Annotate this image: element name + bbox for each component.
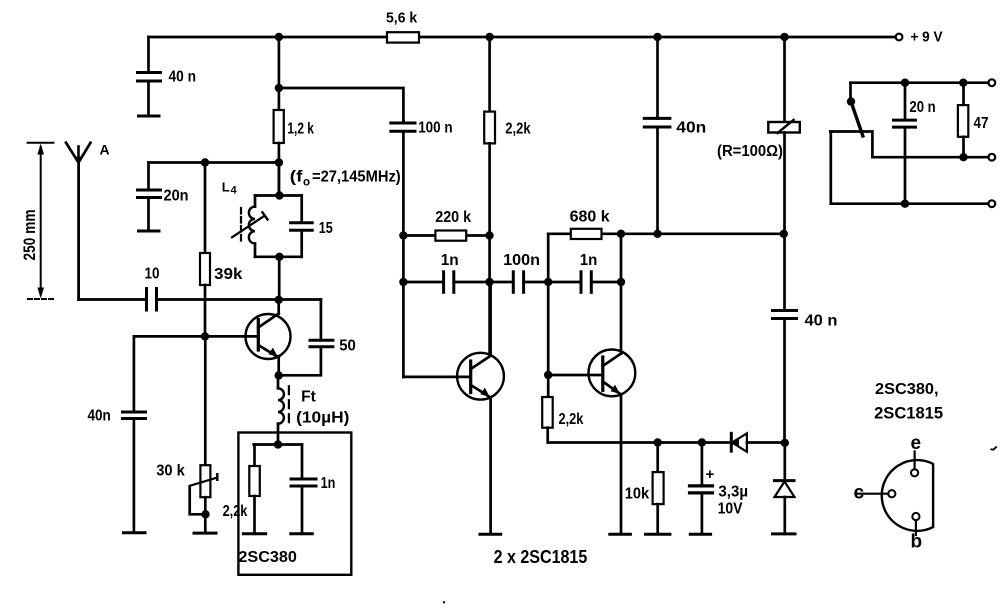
ground bar (Q3 emitter) [610,533,631,536]
node: 680k/40n [653,230,661,238]
transistor Q2 2SC1815 [457,282,504,534]
wire 680k line [548,232,783,235]
label f0 [290,169,401,189]
node: 1,2k bottom junction [275,158,283,166]
wire antenna line to C10 [79,298,146,301]
svg-text:2SC380,: 2SC380, [875,381,939,398]
svg-text:+: + [706,466,715,483]
svg-text:1n: 1n [580,252,598,269]
wire tank bottom to collector node [278,257,281,300]
svg-text:40 n: 40 n [805,313,838,330]
node: 1n left [399,278,407,286]
relay coil (R=100) [717,37,800,234]
speck [443,601,445,603]
svg-text:20 n: 20 n [909,99,935,116]
resistor 10k [625,443,664,535]
node: rail/1,2k junction [275,33,283,41]
resistor 2,2k (box) [223,445,260,534]
capacitor 100n (Q1 collector coupling) [391,120,453,377]
ground bar (3,3u) [690,533,710,536]
svg-text:+ 9 V: + 9 V [911,29,943,46]
wire C10 to collector node [157,298,321,301]
svg-text:20n: 20n [164,188,189,205]
svg-text:(10µH): (10µH) [296,410,349,427]
capacitor 1n (box) [291,445,335,534]
capacitor 20n left [138,163,189,232]
capacitor 40n (middle) [644,37,706,234]
resistor 1,2k [274,37,315,196]
ground bar (20n left) [139,230,160,233]
ground bar (Q2 emitter) [480,533,501,536]
resistor 39k [200,163,243,337]
svg-text:2,2k: 2,2k [505,121,531,138]
node: sw top 20n [901,79,909,87]
node: Q3 base node [544,371,552,379]
capacitor 40n bottom-left [88,336,146,532]
wire switch mid rail [872,156,988,159]
terminal switch bottom [988,200,995,207]
capacitor 40n (right) [773,234,838,443]
terminal +9V [896,29,943,46]
svg-text:2SC380: 2SC380 [238,549,297,566]
svg-text:40n: 40n [88,408,111,425]
wire Q3 base network vertical [547,234,550,397]
resistor 2,2k (Q3 base) [542,397,658,443]
svg-text:=27,145MHz): =27,145MHz) [312,169,401,186]
potentiometer 30k [156,336,217,533]
antenna A [66,142,110,164]
node: 30k wiper junction [201,510,209,518]
node: 10k top [654,438,662,446]
node: 220k left [399,231,407,239]
transistor pinout package [854,433,934,553]
capacitor 40n top-left [138,37,197,116]
wire switch top rail [851,81,989,84]
stray mark [991,447,996,450]
dimension 250mm [20,143,53,299]
node: 47 bottom [959,153,967,161]
wire switch bottom rail [831,202,989,205]
svg-text:39k: 39k [214,266,243,283]
wire inside box [254,443,302,446]
svg-text:10: 10 [145,266,160,283]
wire tank top lead [278,163,281,196]
node: diode/zener junction [781,439,789,447]
wire 20n branch line [149,161,279,164]
diode D1 (horizontal) [731,433,784,452]
svg-text:47: 47 [974,115,989,132]
node: 1n2 left [544,278,552,286]
ground bar (1n box) [291,532,313,535]
svg-text:4: 4 [231,185,238,197]
svg-text:(f: (f [290,169,304,186]
svg-text:15: 15 [319,220,333,237]
wire Q2 base line [403,376,470,379]
node: box junction [274,440,282,448]
svg-text:250 mm: 250 mm [20,210,39,261]
label 2SC380, 2SC1815 [874,381,943,423]
capacitor 1n (second) [548,252,621,293]
ground bar (10k) [646,533,670,536]
ground bar (2,2k box) [243,532,265,535]
capacitor 10 [145,266,160,311]
svg-text:40 n: 40 n [169,69,197,86]
wire +9V top rail [149,36,896,39]
wire 100n branch [279,88,404,121]
node: rail/relay junction [780,33,788,41]
resistor 680k [570,209,610,240]
svg-text:100n: 100n [503,252,540,269]
inductor Ft 10uH [278,376,349,445]
node: 680k/relay [780,230,788,238]
node: 3,3u top [698,438,706,446]
svg-text:L: L [222,180,230,195]
node: 1n2 right [617,278,625,286]
terminal switch mid [988,154,995,161]
node: sw top 47 [959,79,967,87]
svg-text:c: c [854,482,865,503]
ground bar (40n top-left) [139,115,160,118]
svg-text:1,2 k: 1,2 k [287,121,314,138]
transistor Q3 2SC1815 [589,234,636,534]
ground bar (40n bottom-left) [124,531,146,534]
node: emitter node Q1 [275,371,283,379]
diode D2 (vertical) [775,443,795,534]
svg-text:10V: 10V [718,501,743,518]
resistor 220k [403,209,489,241]
svg-text:e: e [911,433,922,454]
svg-text:40n: 40n [676,120,706,137]
node: 1n right [485,278,493,286]
svg-text:(R=100Ω): (R=100Ω) [717,143,783,160]
svg-text:3,3µ: 3,3µ [718,484,748,501]
svg-text:680 k: 680 k [570,209,610,226]
capacitor 100n (interstage) [490,252,549,293]
transistor Q1 2SC380 [246,300,291,376]
resistor 2,2k (Q2 collector) [484,37,531,355]
capacitor 1n (first) [403,252,489,293]
node: 680k/Q3 collector [617,230,625,238]
svg-text:2,2k: 2,2k [559,411,584,428]
node: 1,2k/100n branch [275,84,283,92]
node: 39k top junction [201,158,209,166]
resistor 5,6k [386,10,419,43]
node: tank bottom [275,253,283,261]
terminal switch top [988,79,995,86]
svg-text:o: o [303,177,310,189]
relay switch contact [830,83,872,158]
svg-text:10k: 10k [625,486,650,503]
node: base node Q1 [201,332,209,340]
resistor 47 [958,83,989,158]
box 2SC380 stage [238,433,351,575]
svg-text:1n: 1n [321,475,336,492]
svg-text:Ft: Ft [301,389,316,406]
svg-text:b: b [911,532,923,553]
svg-text:100 n: 100 n [418,120,452,137]
wire switch left down [829,132,832,204]
svg-text:A: A [100,142,110,158]
node: rail/2,2k junction [485,33,493,41]
svg-text:2,2k: 2,2k [223,503,248,520]
node: 220k right [485,231,493,239]
svg-text:220 k: 220 k [435,209,471,226]
svg-text:2SC1815: 2SC1815 [874,405,943,423]
ground bar (30k) [194,532,216,535]
ground bar (D2) [773,532,796,535]
wire Q1 base line [134,335,258,338]
node: collector node Q1 [275,296,283,304]
capacitor 3,3u 10V [690,443,749,535]
svg-text:1n: 1n [441,252,459,269]
capacitor 20n (switch) [894,83,936,204]
wire antenna stem [77,163,80,299]
wire diode line [658,441,732,444]
wire Q3 base line [548,374,603,377]
node: 20n bottom [901,200,909,208]
svg-text:50: 50 [339,338,356,355]
tank circuit L4 / 15 [222,180,333,257]
svg-text:30 k: 30 k [156,463,185,480]
svg-text:5,6 k: 5,6 k [386,10,418,27]
node: tank top [275,191,283,199]
capacitor 50 [279,300,356,376]
node: rail/40n junction [653,33,661,41]
svg-text:2 x 2SC1815: 2 x 2SC1815 [494,547,588,567]
